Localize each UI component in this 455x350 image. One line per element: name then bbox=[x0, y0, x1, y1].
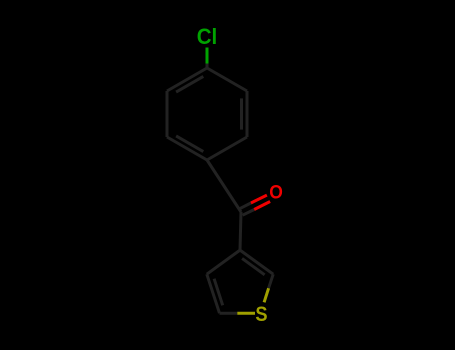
bond benzene C1 to carbonyl carbon bbox=[207, 160, 241, 212]
bond carbonyl carbon to thiophene C3 bbox=[240, 212, 241, 250]
svg-text:S: S bbox=[255, 303, 267, 327]
C=O double bond line 1 (dark half near C) bbox=[239, 203, 251, 209]
C=O double bond line 1 (red half near O) bbox=[251, 195, 267, 203]
benzene bond C1-C6 bbox=[167, 137, 207, 160]
benzene double bond inner line C1=C6 bbox=[176, 136, 203, 152]
benzene bond C3-C2 bbox=[246, 91, 249, 137]
thiophene double bond inner line C5=C4 bbox=[214, 279, 223, 306]
C=O double bond line 2 (dark half near C) bbox=[243, 210, 255, 216]
thiophene bond S1-C2 (dark half near C2) bbox=[269, 274, 274, 288]
benzene bond C6-C5 bbox=[166, 91, 169, 137]
thiophene bond C5-C4 bbox=[207, 274, 220, 313]
C=O double bond line 2 (red half near O) bbox=[254, 202, 270, 210]
svg-text:O: O bbox=[269, 181, 283, 203]
thiophene bond S1-C5 (olive half near S) bbox=[237, 312, 255, 315]
svg-text:Cl: Cl bbox=[197, 24, 218, 49]
benzene bond C5-C4 bbox=[167, 68, 207, 91]
benzene bond C2-C1 bbox=[207, 137, 247, 160]
benzene double bond inner line C5=C4 bbox=[176, 76, 203, 92]
thiophene bond S1-C5 (dark half near C5) bbox=[220, 312, 238, 315]
thiophene bond S1-C2 (olive half near S) bbox=[264, 288, 269, 302]
thiophene bond C3-C2 bbox=[240, 250, 273, 274]
thiophene bond C4-C3 bbox=[207, 250, 240, 274]
bond C4-Cl (dark half near ring) bbox=[206, 64, 209, 69]
benzene double bond inner line C3=C2 bbox=[240, 98, 243, 129]
thiophene double bond inner line C3=C2 bbox=[242, 258, 265, 274]
bond C4-Cl (green half near Cl) bbox=[206, 48, 209, 64]
benzene bond C4-C3 bbox=[207, 68, 247, 91]
